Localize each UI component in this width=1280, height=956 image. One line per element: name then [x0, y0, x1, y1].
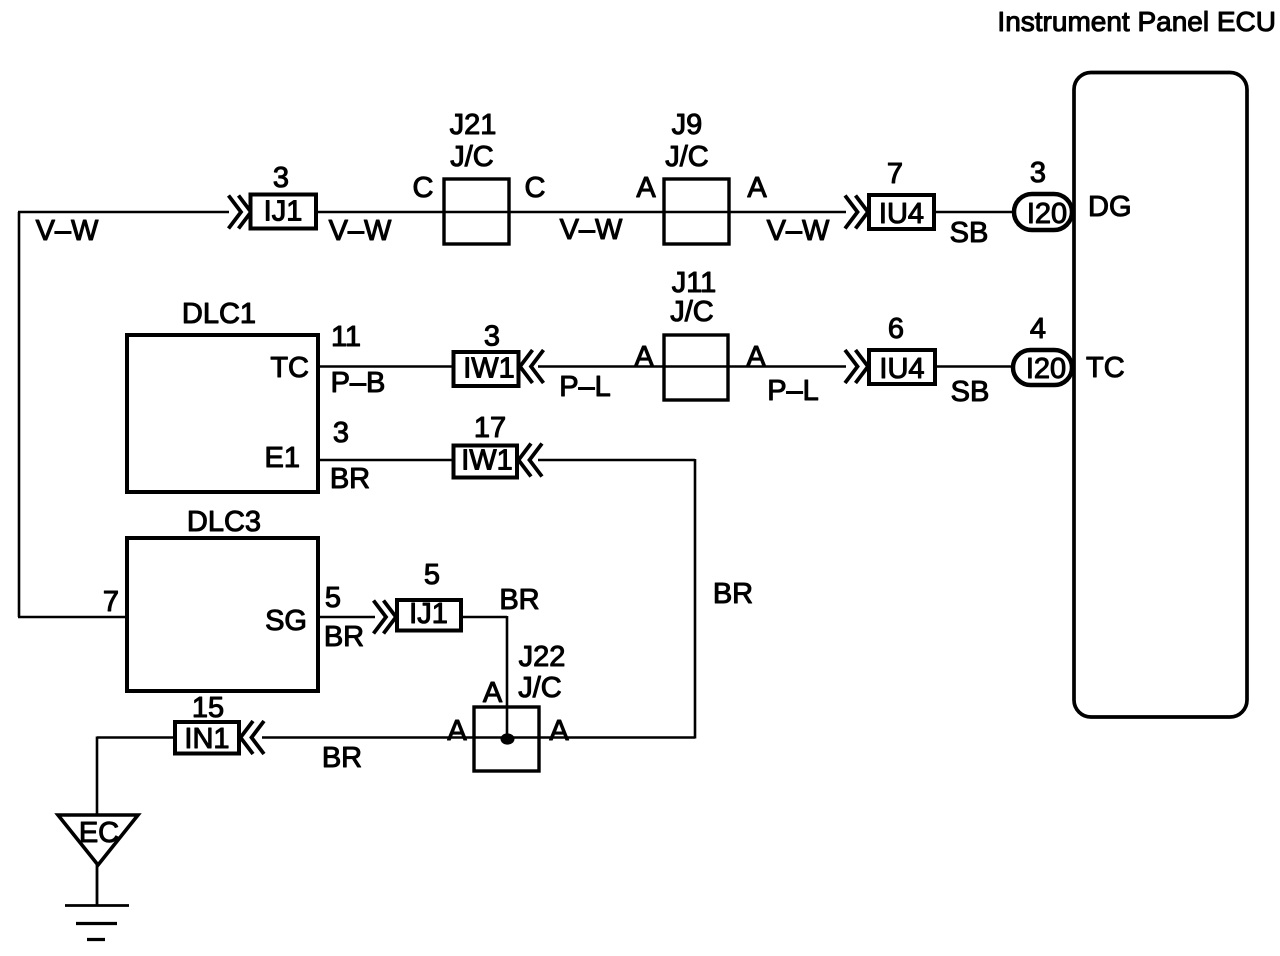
svg-text:IU4: IU4: [879, 353, 924, 385]
wire row2 IU4 to I20: [935, 365, 1015, 368]
wire row1 left vertical V-W: [18, 212, 21, 617]
wire row2 IW1 to IU4 through J11: [538, 365, 846, 368]
svg-text:A: A: [746, 341, 766, 373]
wire DLC3 pin7 from left vertical: [18, 616, 128, 619]
svg-text:I20: I20: [1026, 353, 1066, 385]
svg-text:J/C: J/C: [450, 141, 494, 173]
svg-text:I20: I20: [1027, 198, 1067, 230]
svg-text:15: 15: [192, 692, 224, 724]
svg-text:SG: SG: [265, 605, 307, 637]
svg-text:IJ1: IJ1: [409, 598, 448, 630]
svg-text:17: 17: [474, 412, 506, 444]
connector chevrons after IW1 row3: [519, 444, 543, 477]
wire row3 DLC1 E1 pin to IW1: [318, 459, 454, 462]
connector IU4 row2: [869, 313, 935, 385]
svg-text:J11: J11: [672, 267, 717, 299]
wire DLC3 SG pin to IJ1 connector: [318, 616, 375, 619]
svg-text:TC: TC: [270, 352, 309, 384]
svg-text:EC: EC: [79, 817, 119, 849]
svg-text:BR: BR: [713, 578, 753, 610]
DLC3 connector box: [127, 506, 318, 691]
svg-text:P–L: P–L: [767, 375, 819, 407]
svg-text:4: 4: [1030, 313, 1046, 345]
wire row2 DLC1 TC pin to IW1: [318, 365, 456, 368]
svg-text:E1: E1: [265, 442, 300, 474]
svg-text:A: A: [747, 172, 767, 204]
svg-text:3: 3: [333, 417, 349, 449]
svg-text:TC: TC: [1086, 352, 1125, 384]
svg-text:IU4: IU4: [879, 198, 924, 230]
svg-text:J22: J22: [519, 641, 566, 673]
svg-text:IJ1: IJ1: [264, 196, 303, 228]
ground EC triangle: [58, 815, 138, 865]
connector IJ1 row1: [251, 162, 317, 229]
wire IN1 to EC corner: [97, 736, 176, 739]
junction dot node A in J22: [501, 733, 515, 744]
svg-text:IW1: IW1: [461, 445, 513, 477]
svg-text:DLC3: DLC3: [187, 506, 261, 538]
svg-text:P–B: P–B: [331, 367, 386, 399]
connector IW1 row3 pin 17: [454, 412, 518, 478]
svg-text:3: 3: [273, 162, 289, 194]
svg-text:DG: DG: [1088, 191, 1132, 223]
svg-text:P–L: P–L: [559, 371, 611, 403]
junction box J9: [664, 109, 729, 244]
wire row1 IU4 to I20: [934, 211, 1016, 214]
svg-text:J/C: J/C: [670, 296, 714, 328]
connector IJ1 DLC3 row: [397, 559, 461, 631]
wire down to EC triangle: [96, 737, 99, 817]
connector oval I20 row1 pin 3: [1014, 157, 1072, 230]
junction box J21: [444, 109, 509, 244]
DLC1 connector box: [127, 298, 318, 492]
connector oval I20 row2 pin 4: [1013, 313, 1072, 385]
connector IN1 pin 15: [175, 692, 239, 755]
ground bar 1: [65, 904, 129, 907]
svg-text:Instrument Panel ECU: Instrument Panel ECU: [997, 6, 1276, 37]
svg-text:SB: SB: [950, 217, 989, 249]
svg-text:J/C: J/C: [665, 141, 709, 173]
wire BR vertical down to J22 row: [694, 459, 697, 739]
connector IW1 row2 pin 3: [454, 321, 519, 387]
svg-text:3: 3: [484, 321, 500, 353]
svg-text:A: A: [447, 715, 467, 747]
svg-text:A: A: [634, 341, 654, 373]
svg-text:7: 7: [887, 158, 903, 190]
svg-text:IN1: IN1: [184, 723, 229, 755]
svg-text:A: A: [483, 677, 503, 709]
ground stem: [96, 865, 99, 905]
svg-text:BR: BR: [499, 584, 539, 616]
svg-text:A: A: [636, 172, 656, 204]
svg-text:IW1: IW1: [463, 353, 515, 385]
connector chevrons before IU4 row1: [845, 196, 868, 229]
svg-text:J21: J21: [450, 109, 497, 141]
connector chevrons after IW1 row2: [520, 350, 544, 383]
svg-text:A: A: [549, 715, 569, 747]
svg-text:J/C: J/C: [518, 672, 562, 704]
svg-text:C: C: [413, 172, 434, 204]
svg-text:SB: SB: [951, 376, 990, 408]
wire row1 horizontal to IJ1 connector: [18, 211, 229, 214]
junction box J11: [664, 267, 728, 400]
ground bar 3: [87, 938, 105, 941]
wire row1 IJ1 to IU4 through J21 and J9: [316, 211, 846, 214]
svg-text:5: 5: [325, 582, 341, 614]
svg-text:11: 11: [331, 321, 361, 353]
svg-text:J9: J9: [672, 109, 703, 141]
svg-text:C: C: [525, 172, 546, 204]
connector chevrons before IJ1 row1: [229, 196, 252, 229]
wire J22 row horizontal: [262, 736, 695, 739]
connector IU4 row1: [869, 158, 934, 230]
svg-text:6: 6: [888, 313, 904, 345]
svg-text:3: 3: [1030, 157, 1046, 189]
Instrument Panel ECU box: [997, 6, 1276, 717]
wire row3 IW1 to BR vertical: [538, 459, 695, 462]
svg-text:BR: BR: [322, 742, 362, 774]
wire BR corner down into J22 to junction dot: [506, 616, 509, 739]
svg-text:BR: BR: [330, 463, 370, 495]
connector chevrons before IU4 row2: [845, 350, 868, 383]
svg-text:V–W: V–W: [560, 214, 623, 246]
svg-text:BR: BR: [324, 621, 364, 653]
connector chevrons after IN1: [241, 721, 265, 754]
ground bar 2: [76, 922, 117, 925]
junction box J22: [474, 641, 565, 771]
svg-text:5: 5: [424, 559, 440, 591]
wire IJ1 to corner BR: [461, 616, 507, 619]
svg-text:7: 7: [103, 586, 119, 618]
svg-text:V–W: V–W: [329, 215, 392, 247]
svg-text:V–W: V–W: [767, 215, 830, 247]
svg-text:V–W: V–W: [36, 215, 99, 247]
svg-text:DLC1: DLC1: [182, 298, 256, 330]
connector chevrons before IJ1 DLC3 row: [374, 601, 397, 634]
